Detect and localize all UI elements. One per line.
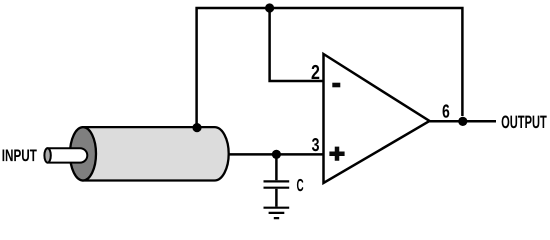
op-amp minus sign [332,83,340,88]
input pin end face [44,148,50,162]
cylinder left face [70,127,96,180]
wire output [428,120,496,123]
wire inverting input from feedback [270,8,323,81]
pin label 3 [312,138,319,151]
junction node top feedback [265,3,274,12]
op-amp plus sign [329,147,344,161]
capacitor label C [297,179,303,191]
pin label 2 [312,65,320,79]
capacitor C wire upper [275,154,278,180]
input pin [48,148,88,162]
wire feedback top [197,8,463,128]
junction node output [458,117,467,126]
junction node cylinder top [192,123,201,132]
label INPUT [3,150,37,162]
junction node capacitor [272,150,281,159]
op-amp U1 [324,54,430,183]
capacitor C wire lower [275,189,278,207]
ground [264,208,290,218]
pin label 6 [443,104,450,117]
capacitor C plates [264,181,290,187]
cylinder cable body [83,127,229,180]
wire noninverting input [226,153,323,156]
label OUTPUT [502,115,547,128]
